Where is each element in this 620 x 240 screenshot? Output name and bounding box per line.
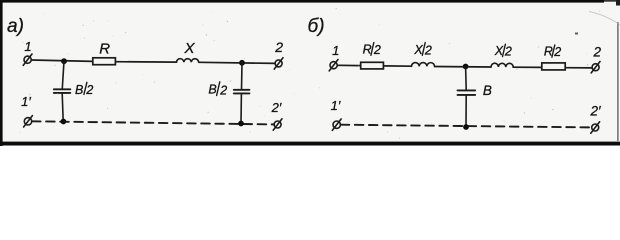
label b) [308,16,325,37]
node B (top-right junction) [239,60,245,66]
label R/2 (second) [544,44,561,59]
wire node C down to capacitor B [465,67,468,90]
svg-text:2′: 2′ [271,100,282,115]
svg-text:2: 2 [219,83,227,97]
svg-text:В: В [208,83,216,97]
label X/2 (second) [494,44,512,59]
label B [483,83,492,98]
terminal b-2 [591,62,600,73]
label 2' (b) [589,104,601,119]
node A' (bottom-left junction) [61,119,67,125]
label B/2 (right) [208,83,227,98]
svg-text:2′: 2′ [589,104,601,119]
label 1' (b) [331,98,341,113]
label X/2 (first) [413,43,431,58]
wire terminal b1 to resistor R/2 first [337,64,360,66]
wire R to X [115,61,176,63]
svg-text:1: 1 [24,39,31,54]
terminal b-1 [329,60,338,71]
label 2 (terminal a-2) [274,39,283,55]
dashed bottom rail a [32,121,274,124]
node C (middle junction) [463,64,469,70]
label 1' [21,94,31,109]
capacitor B/2 left [54,89,71,93]
label R [99,41,110,58]
resistor R/2 first [361,62,384,69]
svg-text:R: R [99,41,110,58]
svg-text:В: В [75,83,83,97]
svg-text:а): а) [7,16,24,37]
terminal 2' [273,119,282,130]
terminal 2 [274,58,283,69]
svg-text:R: R [363,43,372,57]
wire X/2 second to R/2 second [513,66,542,68]
terminal 1 [23,54,32,65]
label a) [7,16,24,37]
svg-text:1: 1 [332,43,339,58]
inductor X/2 first [412,63,435,67]
wire capacitor B/2 right down to node B' [240,94,242,124]
wire node B down to capacitor B/2 right [241,63,244,89]
node C' (bottom junction) [463,124,469,130]
paper speckles (decorative) [19,8,600,139]
wire X/2 to node C [435,66,491,69]
wire X to node B [199,62,275,63]
capacitor B [458,90,476,95]
svg-text:В: В [483,83,492,98]
terminal b-1' [332,119,341,130]
svg-text:1′: 1′ [21,94,31,109]
label 1 (terminal b-1) [332,43,339,58]
svg-text:2: 2 [274,39,283,55]
label 2 (terminal b-2) [593,45,602,60]
svg-text:б): б) [308,16,325,37]
label R/2 (first) [363,43,381,57]
resistor R/2 second [542,63,565,70]
wire node A down to capacitor B/2 left [62,61,64,88]
svg-text:2: 2 [593,45,602,60]
wire capacitor B down to node C' [465,95,467,127]
inductor X [177,59,199,63]
capacitor B/2 right [234,90,250,94]
svg-text:1′: 1′ [331,98,341,113]
node A (top-left junction) [61,58,67,64]
dashed bottom rail b [341,125,592,128]
label X [183,40,195,57]
decorative frame [0,0,604,3]
wire R/2 second to terminal b-2 [565,67,592,69]
label B/2 (left) [75,83,93,97]
label 2' [271,100,282,115]
svg-text:X: X [183,40,195,57]
wire terminal1 to resistor R [31,60,93,61]
label 1 (terminal a-1) [24,39,31,54]
terminal b-2' [591,122,600,133]
node B' (bottom-right junction) [238,121,244,127]
wire R/2 to X/2 first [383,65,411,67]
wire capacitor B/2 left down to node A' [62,94,63,122]
svg-text:2: 2 [373,43,381,57]
terminal 1' [24,116,33,127]
resistor R [93,58,116,65]
inductor X/2 second [491,63,513,67]
